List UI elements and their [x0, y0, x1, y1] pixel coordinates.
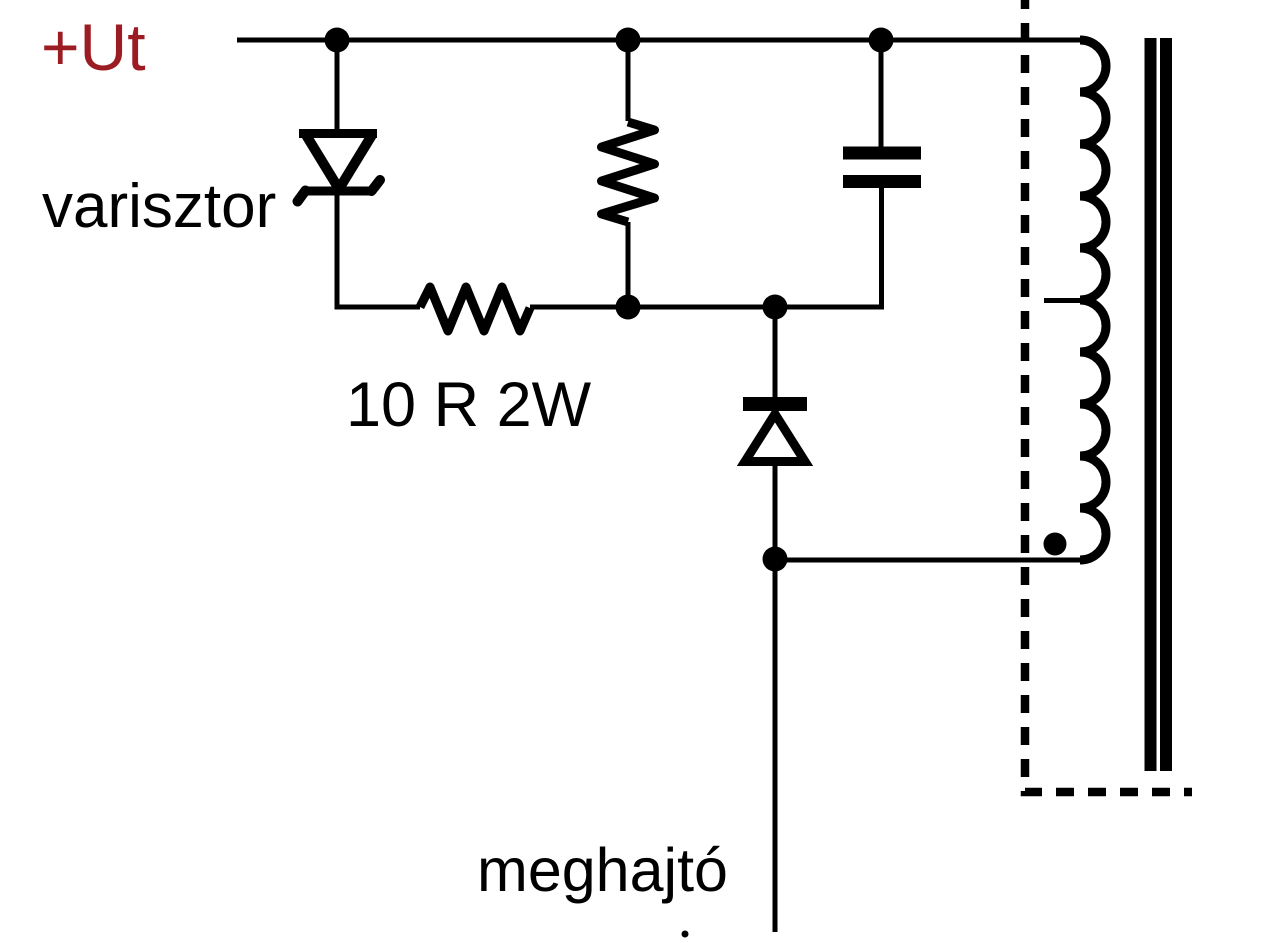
stray mark: [682, 931, 689, 938]
wire varistor top lead: [335, 40, 340, 132]
svg-text:+Ut: +Ut: [41, 10, 146, 84]
wire top rail +Ut: [237, 38, 1082, 43]
wire winding bottom return: [775, 558, 1080, 563]
resistor R1 (vertical zigzag): [602, 122, 655, 222]
wire meghajto driver lead: [773, 560, 778, 932]
wire capacitor top lead: [879, 40, 884, 147]
varistor: [298, 134, 381, 202]
wire varistor bottom lead: [335, 194, 421, 310]
junction dot top rail / varistor: [325, 28, 350, 53]
junction dot top rail / resistor: [616, 28, 641, 53]
transformer shield dashed boundary: [1025, 0, 1192, 792]
junction dot top rail / capacitor: [869, 28, 894, 53]
junction dot diode / winding return: [763, 547, 788, 572]
transformer core bar right: [1160, 38, 1172, 771]
wire resistor bottom lead: [626, 222, 631, 307]
resistor 10R (horizontal zigzag): [420, 287, 530, 331]
wire capacitor bottom lead: [879, 188, 884, 307]
wire resistor top lead: [626, 40, 631, 121]
wire mid rail: [530, 305, 882, 310]
svg-text:meghajtó: meghajtó: [477, 836, 728, 904]
wire diode top lead: [773, 307, 778, 397]
svg-text:10 R 2W: 10 R 2W: [346, 370, 592, 440]
junction dot mid rail / diode: [763, 295, 788, 320]
transformer core bar left: [1145, 38, 1157, 771]
transformer primary winding L1: [1080, 40, 1106, 560]
winding phase dot: [1044, 533, 1067, 556]
capacitor C1: [843, 153, 921, 182]
wire diode bottom lead: [773, 462, 778, 560]
svg-text:varisztor: varisztor: [42, 172, 276, 241]
wire winding center tap: [1044, 298, 1082, 303]
diode D1: [743, 404, 807, 462]
junction dot mid rail / resistor: [616, 295, 641, 320]
